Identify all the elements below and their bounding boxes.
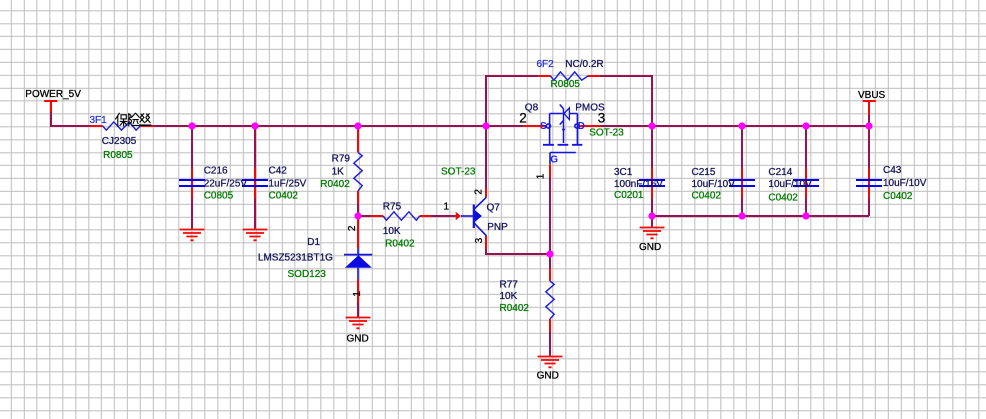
svg-text:R0402: R0402 [320,179,350,190]
svg-text:GND: GND [537,371,559,382]
svg-text:G: G [550,154,558,165]
svg-text:1uF/25V: 1uF/25V [269,179,307,190]
svg-text:10K: 10K [383,226,401,237]
svg-text:22uF/25V: 22uF/25V [204,179,248,190]
svg-text:10K: 10K [500,291,518,302]
svg-text:2: 2 [519,111,527,126]
svg-text:S: S [540,121,547,132]
svg-text:C215: C215 [692,167,716,178]
svg-text:Q8: Q8 [525,103,539,114]
svg-text:3: 3 [474,237,485,243]
svg-text:2: 2 [474,189,485,195]
svg-text:1: 1 [444,201,450,212]
svg-text:C43: C43 [883,165,902,176]
svg-text:D1: D1 [307,237,320,248]
svg-text:C0402: C0402 [269,191,299,202]
svg-text:POWER_5V: POWER_5V [25,89,81,100]
svg-text:VBUS: VBUS [858,90,886,101]
svg-text:D: D [578,121,585,132]
svg-text:R79: R79 [332,153,351,164]
svg-text:C0201: C0201 [614,190,644,201]
svg-text:6F2: 6F2 [537,59,555,70]
svg-text:C0402: C0402 [692,190,722,201]
svg-text:C42: C42 [269,166,288,177]
svg-text:100nF/16V: 100nF/16V [614,179,663,190]
svg-text:10uF/10V: 10uF/10V [883,178,927,189]
svg-text:C216: C216 [204,166,228,177]
svg-text:LMSZ5231BT1G: LMSZ5231BT1G [258,253,333,264]
svg-text:NC/0.2R: NC/0.2R [565,59,603,70]
svg-text:GND: GND [639,242,661,253]
svg-text:CJ2305: CJ2305 [102,136,137,147]
svg-text:SOT-23: SOT-23 [441,167,476,178]
svg-text:SOT-23: SOT-23 [589,127,624,138]
svg-text:3: 3 [598,111,606,126]
svg-text:R0402: R0402 [385,238,415,249]
svg-text:R77: R77 [500,279,519,290]
svg-text:C0402: C0402 [883,191,913,202]
svg-text:GND: GND [347,334,369,345]
svg-text:1: 1 [352,291,363,297]
svg-text:3F1: 3F1 [90,115,108,126]
svg-text:10uF/10V: 10uF/10V [768,179,812,190]
svg-text:R0402: R0402 [500,303,530,314]
svg-text:2: 2 [347,225,358,231]
svg-text:R0805: R0805 [103,150,133,161]
svg-text:1: 1 [535,173,546,179]
svg-text:C0402: C0402 [768,192,798,203]
svg-text:R0805: R0805 [551,79,581,90]
svg-text:3C1: 3C1 [614,167,633,178]
svg-text:10uF/10V: 10uF/10V [692,179,736,190]
svg-text:Q7: Q7 [487,203,501,214]
svg-text:R75: R75 [383,202,402,213]
svg-text:C214: C214 [768,167,792,178]
svg-text:PNP: PNP [487,222,508,233]
svg-text:C0805: C0805 [204,191,234,202]
svg-text:1K: 1K [332,167,345,178]
svg-text:SOD123: SOD123 [288,269,327,280]
